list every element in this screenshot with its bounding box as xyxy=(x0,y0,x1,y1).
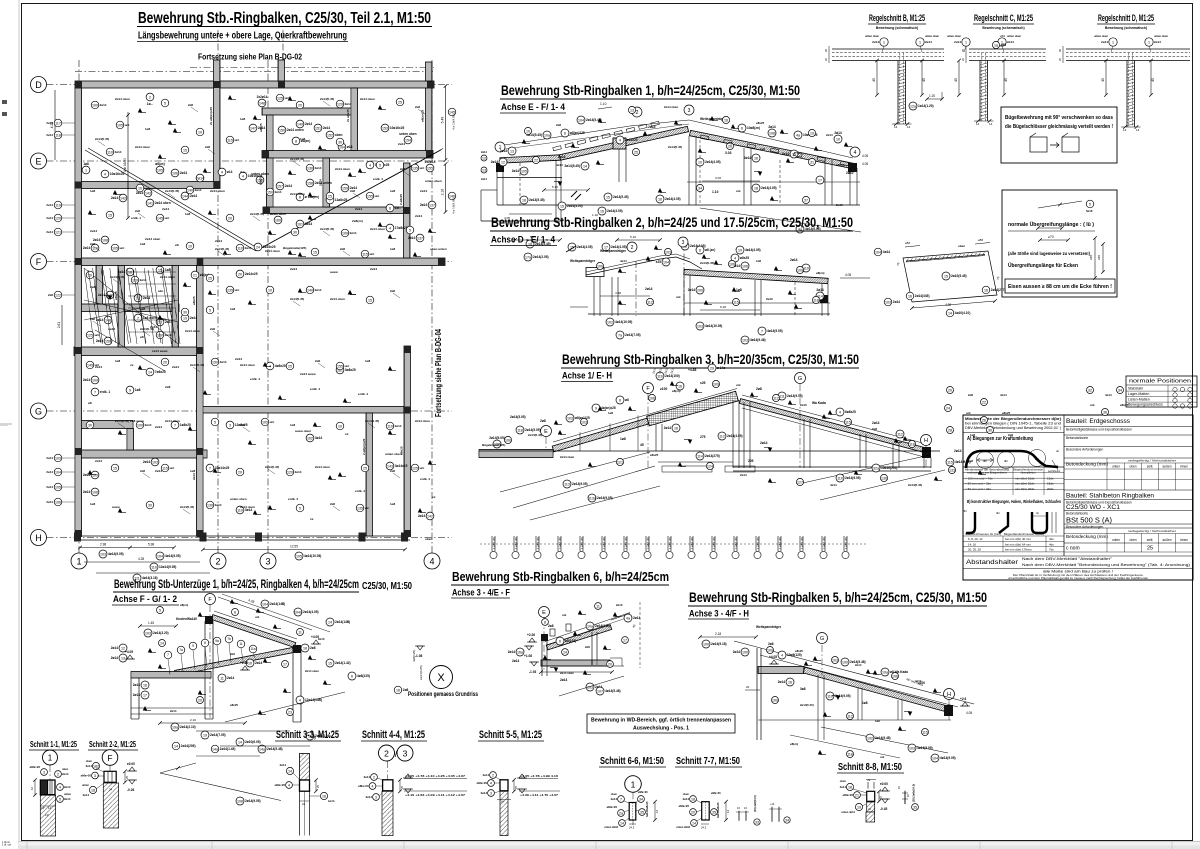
svg-text:2x2ø14: 2x2ø14 xyxy=(257,95,268,99)
svg-text:Achse 3 - 4/F - H: Achse 3 - 4/F - H xyxy=(689,609,749,620)
svg-text:1.10: 1.10 xyxy=(712,190,719,194)
svg-text:ø8: ø8 xyxy=(88,401,92,405)
svg-text:2ø14: 2ø14 xyxy=(83,378,90,382)
svg-text:øMa=20: øMa=20 xyxy=(275,783,286,787)
svg-text:2ø14: 2ø14 xyxy=(855,663,862,667)
svg-text:20: 20 xyxy=(163,360,167,364)
svg-text:15ds: 15ds xyxy=(1047,482,1054,486)
svg-text:29: 29 xyxy=(710,366,714,370)
svg-text:2ø14(205): 2ø14(205) xyxy=(181,744,196,748)
svg-text:1 ø8(1.45): 1 ø8(1.45) xyxy=(778,537,782,549)
svg-text:37: 37 xyxy=(804,198,808,202)
svg-text:130: 130 xyxy=(881,476,887,480)
svg-text:124: 124 xyxy=(707,464,713,468)
svg-text:2ø14: 2ø14 xyxy=(744,156,751,160)
svg-text:143: 143 xyxy=(145,191,151,195)
svg-text:unt: unt xyxy=(170,466,175,470)
svg-text:2ø14(5.45): 2ø14(5.45) xyxy=(290,157,304,161)
svg-text:14: 14 xyxy=(328,620,332,624)
svg-text:2: 2 xyxy=(215,556,220,566)
svg-text:+4.05: +4.05 xyxy=(769,655,777,659)
svg-text:6.20: 6.20 xyxy=(720,305,726,309)
svg-text:2: 2 xyxy=(57,772,59,776)
svg-text:2ø14(1.42): 2ø14(1.42) xyxy=(335,661,351,665)
svg-text:Bewegungsanschluss: Bewegungsanschluss xyxy=(1128,403,1163,407)
svg-text:16: 16 xyxy=(788,680,792,684)
svg-text:12ø14(9.05): 12ø14(9.05) xyxy=(159,565,176,569)
svg-text:2ø14: 2ø14 xyxy=(64,797,71,801)
svg-text:2ø14: 2ø14 xyxy=(275,190,282,194)
svg-text:5.49: 5.49 xyxy=(441,117,445,124)
svg-text:unt: unt xyxy=(120,246,125,250)
svg-text:8: 8 xyxy=(204,641,206,645)
svg-text:16: 16 xyxy=(724,118,728,122)
svg-text:Abstandshalter: Abstandshalter xyxy=(966,559,1018,566)
svg-text:18: 18 xyxy=(91,788,95,792)
svg-text:103: 103 xyxy=(697,324,703,328)
svg-text:rechtwinklig zur Biegeebene: rechtwinklig zur Biegeebene xyxy=(967,471,1008,475)
svg-text:ausw: ausw xyxy=(112,505,120,509)
svg-text:2ø14(4.05): 2ø14(4.05) xyxy=(577,245,593,249)
svg-text:2ø14: 2ø14 xyxy=(140,278,147,282)
svg-text:2ø14: 2ø14 xyxy=(778,680,785,684)
svg-text:unten: unten xyxy=(64,792,71,796)
svg-text:+2.6: +2.6 xyxy=(960,697,967,701)
svg-text:1ø8: 1ø8 xyxy=(90,502,96,506)
svg-text:118: 118 xyxy=(909,442,915,446)
svg-text:2ø14: 2ø14 xyxy=(1007,40,1014,44)
svg-text:4: 4 xyxy=(242,174,244,178)
svg-text:unt: unt xyxy=(165,216,170,220)
svg-text:2ø14(5.05): 2ø14(5.05) xyxy=(525,428,541,432)
svg-text:8: 8 xyxy=(544,620,546,624)
svg-text:2ø14(1.45): 2ø14(1.45) xyxy=(220,747,236,751)
svg-text:1a: 1a xyxy=(994,43,998,47)
svg-text:2ø14: 2ø14 xyxy=(355,207,362,211)
svg-text:17: 17 xyxy=(818,178,822,182)
svg-text:4: 4 xyxy=(619,138,621,142)
svg-text:11: 11 xyxy=(220,676,224,680)
svg-text:unt: unt xyxy=(345,364,350,368)
svg-text:15: 15 xyxy=(606,195,610,199)
svg-text:ø8 (zn): ø8 (zn) xyxy=(705,248,715,252)
svg-text:Positionen gemaess Grundriss: Positionen gemaess Grundriss xyxy=(408,691,478,698)
svg-text:ø8: ø8 xyxy=(140,335,144,339)
svg-text:2ø14(4.05): 2ø14(4.05) xyxy=(761,186,777,190)
svg-text:unten: unten xyxy=(1112,538,1120,542)
svg-text:Bewehrung Stb-Ringbalken 5, b/: Bewehrung Stb-Ringbalken 5, b/h=24/25cm,… xyxy=(689,590,987,605)
svg-text:100: 100 xyxy=(137,423,143,427)
svg-text:7: 7 xyxy=(137,316,139,320)
svg-text:ø8x25: ø8x25 xyxy=(114,291,118,300)
svg-text:Bewehrung Stb-Ringbalken 6, b/: Bewehrung Stb-Ringbalken 6, b/h=24/25cm xyxy=(452,570,669,584)
svg-text:155: 155 xyxy=(367,194,373,198)
svg-text:xx: xx xyxy=(130,363,134,367)
svg-text:11ø8x25: 11ø8x25 xyxy=(335,198,348,202)
svg-text:dbr: dbr xyxy=(1035,457,1039,461)
svg-text:1 ø8(1.45): 1 ø8(1.45) xyxy=(690,537,694,549)
svg-text:2ø14(7.05): 2ø14(7.05) xyxy=(625,333,641,337)
svg-text:2.18: 2.18 xyxy=(715,632,721,636)
svg-text:14a: 14a xyxy=(212,747,218,751)
svg-text:xx: xx xyxy=(432,495,436,499)
svg-text:16a: 16a xyxy=(517,650,523,654)
svg-text:Bewehrung (schematisch): Bewehrung (schematisch) xyxy=(982,26,1024,30)
svg-text:unt: unt xyxy=(235,138,240,142)
svg-text:8: 8 xyxy=(234,610,236,614)
svg-text:2ø8: 2ø8 xyxy=(310,646,316,650)
svg-text:112: 112 xyxy=(773,396,779,400)
svg-text:unten oben: unten oben xyxy=(399,132,416,136)
svg-text:157: 157 xyxy=(277,184,283,188)
svg-text:10ø16x25: 10ø16x25 xyxy=(110,172,125,176)
svg-text:1.10: 1.10 xyxy=(600,102,607,106)
svg-text:2ø14: 2ø14 xyxy=(295,470,302,474)
svg-text:4ø14(9.48): 4ø14(9.48) xyxy=(750,338,766,342)
svg-text:108: 108 xyxy=(769,131,775,135)
svg-text:12: 12 xyxy=(482,156,486,160)
svg-text:2ø14(5.45): 2ø14(5.45) xyxy=(250,212,264,216)
svg-text:2ø14 ausw: 2ø14 ausw xyxy=(300,372,316,376)
svg-text:4.05: 4.05 xyxy=(862,154,868,158)
svg-text:+4.88: +4.88 xyxy=(688,368,697,372)
svg-text:45: 45 xyxy=(640,443,644,447)
svg-text:18: 18 xyxy=(522,198,526,202)
svg-text:5.10: 5.10 xyxy=(630,235,636,239)
svg-text:30: 30 xyxy=(338,140,342,144)
svg-text:4: 4 xyxy=(839,410,841,414)
svg-text:Achse F - G/ 1- 2: Achse F - G/ 1- 2 xyxy=(113,594,177,605)
svg-text:25: 25 xyxy=(398,100,402,104)
svg-text:3ø8x25: 3ø8x25 xyxy=(345,368,356,372)
svg-text:127: 127 xyxy=(797,480,803,484)
svg-text:2ø14: 2ø14 xyxy=(46,121,53,125)
svg-text:4ø14: 4ø14 xyxy=(1000,393,1007,397)
svg-text:25: 25 xyxy=(363,466,367,470)
svg-text:Betonfestigkeitsklasse und Exp: Betonfestigkeitsklasse und Expositionskl… xyxy=(1066,428,1132,432)
svg-text:16: 16 xyxy=(143,683,147,687)
svg-text:> 50 mm und > 3ds: > 50 mm und > 3ds xyxy=(965,482,991,486)
svg-text:G: G xyxy=(798,376,802,382)
svg-text:≥88: ≥88 xyxy=(1089,255,1093,260)
svg-text:105: 105 xyxy=(112,246,118,250)
svg-text:-0.26: -0.26 xyxy=(127,788,134,792)
svg-text:13: 13 xyxy=(630,108,634,112)
svg-text:4ø14: 4ø14 xyxy=(840,785,847,789)
svg-text:Bewehrung Stb.-Ringbalken, C25: Bewehrung Stb.-Ringbalken, C25/30, Teil … xyxy=(138,10,431,27)
svg-text:2ø14: 2ø14 xyxy=(86,764,93,768)
svg-text:31: 31 xyxy=(810,160,814,164)
svg-text:3ø8: 3ø8 xyxy=(800,687,806,691)
svg-text:normale Übergreifungslänge : (: normale Übergreifungslänge : ( lü ) xyxy=(1008,221,1094,228)
svg-text:2ø8: 2ø8 xyxy=(968,393,973,397)
svg-text:2ø14(345): 2ø14(345) xyxy=(915,294,930,298)
svg-text:16: 16 xyxy=(984,288,988,292)
svg-text:2ø14: 2ø14 xyxy=(740,473,747,477)
svg-text:1ø8: 1ø8 xyxy=(390,189,396,193)
svg-text:1: 1 xyxy=(48,754,53,763)
svg-text:Regelschnitt B, M1:25: Regelschnitt B, M1:25 xyxy=(869,13,925,23)
svg-text:2ø14 oben: 2ø14 oben xyxy=(145,237,160,241)
svg-text:14: 14 xyxy=(894,125,898,129)
svg-text:18: 18 xyxy=(691,797,695,801)
svg-text:25: 25 xyxy=(879,796,883,799)
svg-text:≥50: ≥50 xyxy=(1000,34,1005,38)
svg-text:110: 110 xyxy=(107,150,113,154)
svg-text:DBV-Merkblatt 'Betondeckung un: DBV-Merkblatt 'Betondeckung und Bewehrun… xyxy=(965,426,1061,430)
svg-text:100: 100 xyxy=(92,103,98,107)
svg-text:100: 100 xyxy=(505,438,511,442)
svg-text:oben: oben xyxy=(1129,465,1136,469)
svg-text:15: 15 xyxy=(328,661,332,665)
svg-text:15: 15 xyxy=(313,250,317,254)
svg-text:abc: abc xyxy=(158,289,164,293)
svg-text:4: 4 xyxy=(369,163,371,167)
svg-text:ø8: ø8 xyxy=(625,398,629,402)
svg-text:2ø14 oben: 2ø14 oben xyxy=(330,297,345,301)
svg-text:2ø14: 2ø14 xyxy=(280,763,287,767)
svg-text:1 ø8(1.45): 1 ø8(1.45) xyxy=(514,537,518,549)
svg-text:2ø14: 2ø14 xyxy=(782,152,789,156)
svg-text:105: 105 xyxy=(296,554,302,558)
svg-text:15: 15 xyxy=(368,298,372,302)
svg-text:2ø14: 2ø14 xyxy=(64,785,71,789)
svg-text:45: 45 xyxy=(1004,78,1008,82)
svg-text:19a: 19a xyxy=(172,725,178,729)
svg-text:5ø16: 5ø16 xyxy=(1086,209,1093,213)
svg-text:2ø8: 2ø8 xyxy=(330,502,335,506)
svg-text:unt: unt xyxy=(125,123,130,127)
svg-text:10: 10 xyxy=(198,130,202,134)
svg-text:103: 103 xyxy=(152,460,158,464)
svg-text:ø8(zn): ø8(zn) xyxy=(816,271,825,275)
svg-text:oben: oben xyxy=(425,537,433,541)
svg-text:2ø14: 2ø14 xyxy=(319,179,323,186)
svg-text:1.45: 1.45 xyxy=(148,621,154,625)
svg-text:2ø14: 2ø14 xyxy=(62,772,69,776)
svg-text:2ø14: 2ø14 xyxy=(370,267,377,271)
svg-text:+4.10 +4.63 +4.09 +4.11 +4.12: +4.10 +4.63 +4.09 +4.11 +4.12 +4.07 xyxy=(405,793,466,797)
svg-text:2ø14: 2ø14 xyxy=(83,246,90,250)
svg-text:143: 143 xyxy=(387,464,393,468)
svg-text:(alle Stöße sind lagenweise zu: (alle Stöße sind lagenweise zu versetzen… xyxy=(1008,251,1090,256)
svg-text:14: 14 xyxy=(160,641,164,645)
svg-text:14: 14 xyxy=(148,370,152,374)
svg-text:4ø14: 4ø14 xyxy=(830,483,837,487)
svg-text:2ø14: 2ø14 xyxy=(46,470,53,474)
svg-text:2ø14: 2ø14 xyxy=(683,797,690,801)
svg-text:Bügelbewehrung mit 90° verschw: Bügelbewehrung mit 90° verschwenken so d… xyxy=(1005,115,1113,121)
svg-text:3: 3 xyxy=(229,423,231,427)
svg-text:6: 6 xyxy=(619,398,621,402)
svg-text:3: 3 xyxy=(682,240,685,246)
svg-text:5: 5 xyxy=(379,163,381,167)
svg-text:2ø8: 2ø8 xyxy=(400,167,405,171)
svg-text:4ø14(10.05): 4ø14(10.05) xyxy=(705,324,722,328)
svg-text:16: 16 xyxy=(754,156,758,160)
svg-text:unt: unt xyxy=(95,363,100,367)
svg-text:106: 106 xyxy=(742,264,748,268)
svg-text:(33) 2ø8(14.5): (33) 2ø8(14.5) xyxy=(753,795,757,812)
svg-text:1 ø8(1.45): 1 ø8(1.45) xyxy=(734,537,738,549)
svg-text:14, 16: 14, 16 xyxy=(968,542,976,546)
svg-text:< 50 mm und < 3ds: < 50 mm und < 3ds xyxy=(965,487,991,491)
svg-text:min d(br) 15ds: min d(br) 15ds xyxy=(1015,482,1035,486)
svg-text:2ø14(4.05): 2ø14(4.05) xyxy=(665,197,681,201)
svg-text:6: 6 xyxy=(559,639,561,643)
svg-text:106: 106 xyxy=(92,490,98,494)
svg-text:2ø8: 2ø8 xyxy=(230,652,235,656)
svg-text:110: 110 xyxy=(827,694,833,698)
svg-text:4ds: 4ds xyxy=(1049,542,1054,546)
svg-text:7: 7 xyxy=(620,797,622,801)
svg-text:14ˣ: 14ˣ xyxy=(501,800,505,804)
svg-text:≥100: ≥100 xyxy=(660,387,667,391)
svg-text:2 ø8x25: 2 ø8x25 xyxy=(399,194,403,205)
svg-text:bei min d(br) 64 mm: bei min d(br) 64 mm xyxy=(1005,542,1031,546)
svg-text:2ø14(5.45): 2ø14(5.45) xyxy=(165,189,179,193)
svg-text:118: 118 xyxy=(55,133,61,137)
svg-text:140: 140 xyxy=(187,188,193,192)
svg-text:1ø8: 1ø8 xyxy=(290,423,296,427)
svg-text:104: 104 xyxy=(157,554,163,558)
svg-text:seitl.: seitl. xyxy=(1147,465,1154,469)
svg-text:2ø14(5.45): 2ø14(5.45) xyxy=(190,363,204,367)
svg-text:104: 104 xyxy=(55,470,61,474)
svg-text:2ø14(2.05): 2ø14(2.05) xyxy=(533,255,549,259)
svg-text:4ø14: 4ø14 xyxy=(556,163,563,167)
svg-text:2ø10(6.05): 2ø10(6.05) xyxy=(245,740,261,744)
svg-text:oben: oben xyxy=(62,767,69,771)
svg-text:Bewehrung (schematisch): Bewehrung (schematisch) xyxy=(1105,26,1147,30)
svg-text:ø8(zn): ø8(zn) xyxy=(790,742,798,746)
svg-text:14ˣ: 14ˣ xyxy=(41,806,45,810)
svg-text:14: 14 xyxy=(692,821,696,825)
svg-text:130: 130 xyxy=(307,166,313,170)
svg-text:11a: 11a xyxy=(250,647,255,651)
svg-text:ø8(zn): ø8(zn) xyxy=(180,603,188,607)
svg-text:ø8x25: ø8x25 xyxy=(259,176,263,185)
svg-text:øMa=20: øMa=20 xyxy=(711,791,721,795)
svg-text:4: 4 xyxy=(221,170,223,174)
svg-text:2ø14: 2ø14 xyxy=(350,231,357,235)
svg-text:2ø10: 2ø10 xyxy=(616,603,623,607)
svg-text:2ø14: 2ø14 xyxy=(645,287,653,291)
svg-text:115: 115 xyxy=(922,730,928,734)
svg-text:2ø14: 2ø14 xyxy=(768,125,775,129)
svg-text:unt: unt xyxy=(285,96,290,100)
svg-text:150: 150 xyxy=(105,339,111,343)
svg-text:1ø8: 1ø8 xyxy=(970,433,975,437)
svg-text:7: 7 xyxy=(167,653,169,657)
svg-text:+4.05 +4.78 +4.99 4.10: +4.05 +4.78 +4.99 4.10 xyxy=(520,774,559,778)
svg-text:2ø8: 2ø8 xyxy=(48,293,53,297)
svg-text:5: 5 xyxy=(299,506,301,510)
svg-text:104: 104 xyxy=(663,260,669,264)
svg-text:2ø14 ausw: 2ø14 ausw xyxy=(152,349,168,353)
svg-text:115: 115 xyxy=(362,252,368,256)
svg-text:2ø14 oben: 2ø14 oben xyxy=(165,419,180,423)
svg-text:2ø14 oben: 2ø14 oben xyxy=(265,249,280,253)
svg-text:oben: oben xyxy=(840,779,847,783)
svg-text:2ø14: 2ø14 xyxy=(415,214,422,218)
svg-text:147: 147 xyxy=(250,126,256,130)
svg-text:18: 18 xyxy=(754,186,758,190)
svg-text:2ø14(3.20): 2ø14(3.20) xyxy=(153,631,169,635)
svg-text:16: 16 xyxy=(908,294,912,298)
svg-text:2ø14: 2ø14 xyxy=(420,189,427,193)
svg-text:4ø14: 4ø14 xyxy=(1105,393,1112,397)
svg-text:104: 104 xyxy=(262,602,268,606)
svg-text:2ø14: 2ø14 xyxy=(512,659,519,663)
svg-text:1: 1 xyxy=(883,41,885,45)
svg-text:28: 28 xyxy=(728,144,732,148)
svg-text:4ø14(9.05): 4ø14(9.05) xyxy=(165,554,181,558)
svg-text:2ø14: 2ø14 xyxy=(872,40,879,44)
svg-text:Leichtbeton: Leichtbeton xyxy=(1048,470,1061,473)
svg-text:10ø8(125): 10ø8(125) xyxy=(787,653,802,657)
svg-text:2ø10: 2ø10 xyxy=(800,403,807,407)
svg-text:Schnitt 2-2, M1:25: Schnitt 2-2, M1:25 xyxy=(89,739,136,749)
svg-text:2ø14(5.48): 2ø14(5.48) xyxy=(267,747,283,751)
svg-text:2ø14: 2ø14 xyxy=(500,149,507,153)
svg-text:2ø10(5.45): 2ø10(5.45) xyxy=(951,274,967,278)
svg-text:2ø14(4.05): 2ø14(4.05) xyxy=(303,610,319,614)
svg-text:+2.26: +2.26 xyxy=(240,661,248,665)
svg-text:8: 8 xyxy=(295,139,297,143)
svg-text:5: 5 xyxy=(1089,202,1091,206)
svg-text:1 ø8(1.45): 1 ø8(1.45) xyxy=(536,537,540,549)
svg-text:6, 8, 10, 12: 6, 8, 10, 12 xyxy=(968,537,983,541)
svg-text:103: 103 xyxy=(665,250,671,254)
svg-text:25: 25 xyxy=(1147,546,1153,552)
svg-text:2ø8: 2ø8 xyxy=(315,359,320,363)
svg-text:4: 4 xyxy=(299,698,301,702)
svg-text:10: 10 xyxy=(338,424,342,428)
svg-text:26: 26 xyxy=(982,418,986,422)
svg-text:øMa=20: øMa=20 xyxy=(679,804,690,808)
svg-text:≥88: ≥88 xyxy=(1097,255,1101,260)
svg-text:Achse 1/ E- H: Achse 1/ E- H xyxy=(562,371,612,382)
svg-text:103: 103 xyxy=(909,746,915,750)
svg-text:110: 110 xyxy=(151,565,157,569)
svg-text:2ø14x25: 2ø14x25 xyxy=(245,272,258,276)
svg-text:2ø14: 2ø14 xyxy=(481,177,487,181)
svg-text:5: 5 xyxy=(214,420,216,424)
svg-text:außen: außen xyxy=(1162,465,1171,469)
svg-text:1 ø8(1.45): 1 ø8(1.45) xyxy=(580,537,584,549)
svg-text:24: 24 xyxy=(109,788,113,792)
svg-text:oben: oben xyxy=(335,133,343,137)
svg-text:ausw: ausw xyxy=(330,270,338,274)
svg-text:3ø14x25: 3ø14x25 xyxy=(395,464,408,468)
svg-text:115: 115 xyxy=(947,460,953,464)
svg-text:7: 7 xyxy=(761,329,763,333)
svg-text:4: 4 xyxy=(104,172,106,176)
svg-text:2ø8: 2ø8 xyxy=(165,385,171,389)
svg-text:≥88: ≥88 xyxy=(978,238,983,242)
svg-text:102: 102 xyxy=(607,320,613,324)
svg-text:ø8(125): ø8(125) xyxy=(565,639,576,643)
svg-text:2ø8: 2ø8 xyxy=(390,289,395,293)
svg-text:unt: unt xyxy=(365,506,370,510)
svg-text:16: 16 xyxy=(678,384,682,388)
svg-text:15: 15 xyxy=(108,213,112,217)
svg-text:2: 2 xyxy=(631,245,634,251)
svg-text:1 ø8(1.45): 1 ø8(1.45) xyxy=(822,537,826,549)
svg-text:2ø8: 2ø8 xyxy=(340,247,345,251)
svg-text:16: 16 xyxy=(322,794,326,798)
